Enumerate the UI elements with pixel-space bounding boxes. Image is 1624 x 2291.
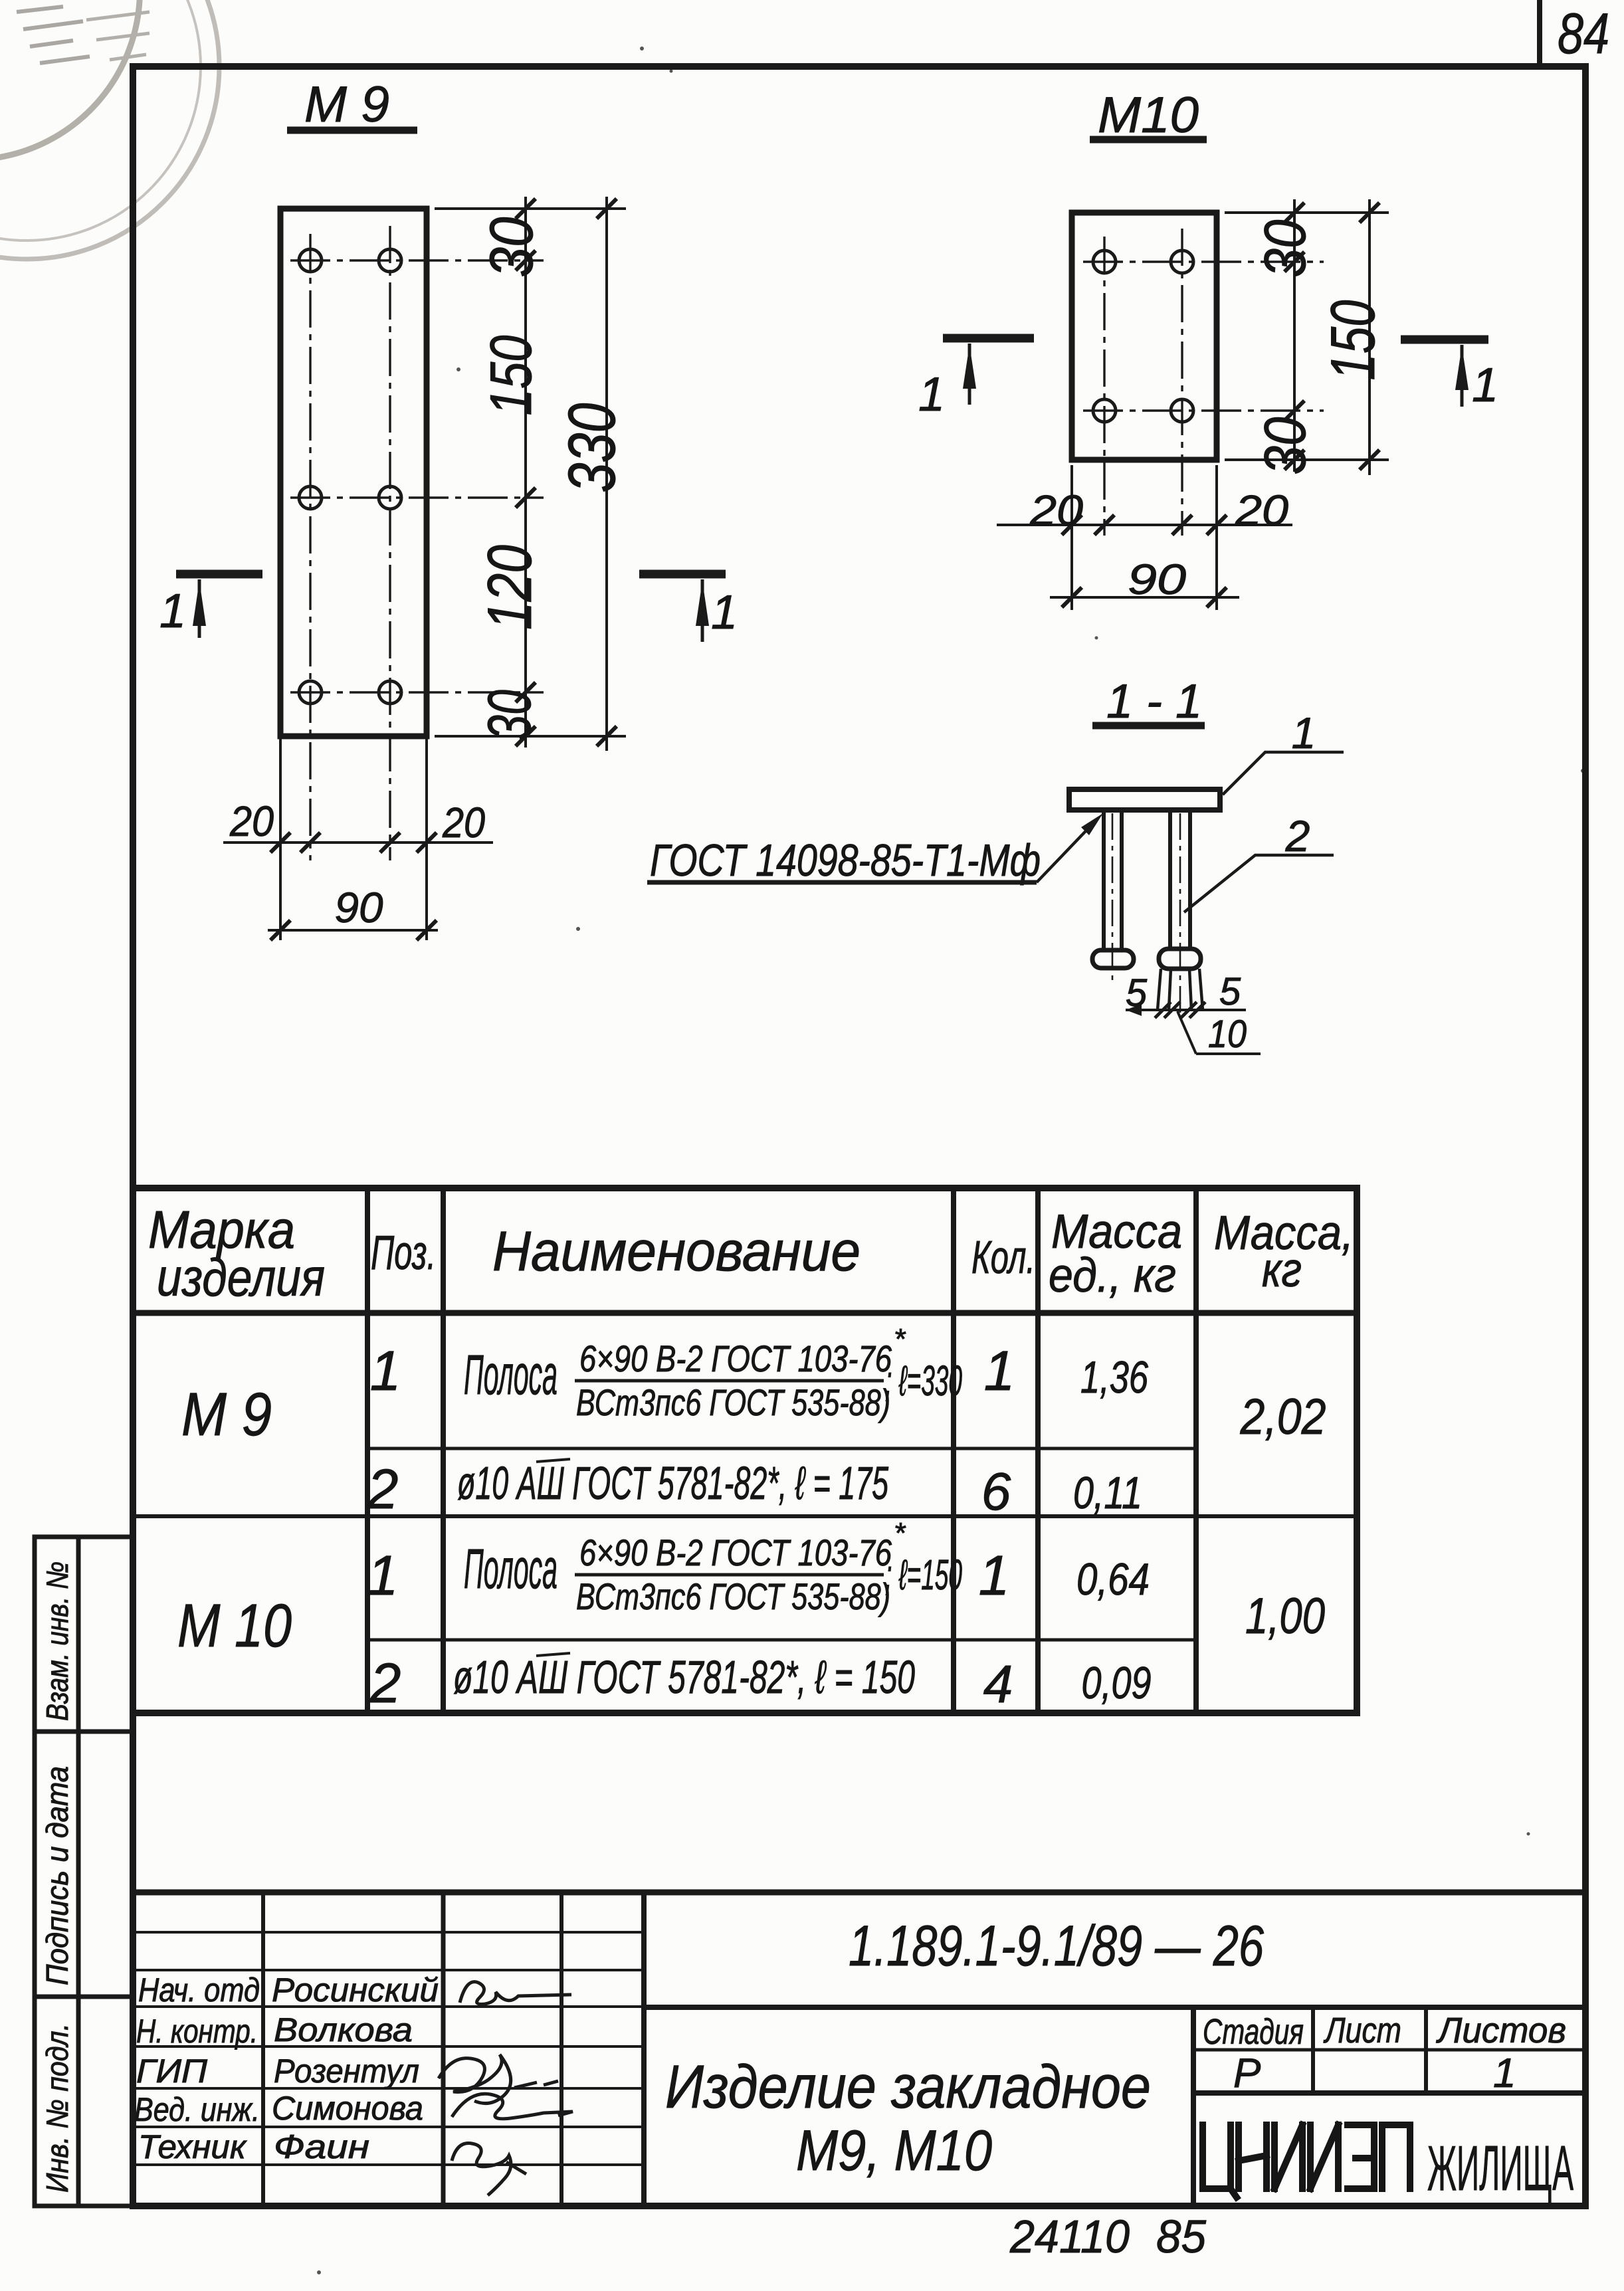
M10 bottom dim ticks <box>1062 515 1227 607</box>
svg-text:М10: М10 <box>1098 87 1199 144</box>
M10 holes d10 <box>1093 250 1193 422</box>
divider title/stadia <box>1191 2007 1196 2206</box>
stadia grid <box>1193 2007 1585 2093</box>
svg-text:Волкова: Волкова <box>274 2011 413 2048</box>
svg-text:; ℓ=150: ; ℓ=150 <box>885 1551 962 1599</box>
svg-text:Росинский: Росинский <box>272 1971 439 2009</box>
svg-text:20: 20 <box>1235 486 1289 534</box>
svg-text:330: 330 <box>555 403 629 493</box>
right rod centerline <box>1179 813 1181 1013</box>
svg-text:30: 30 <box>1252 417 1318 474</box>
scan stamp artifact top-left <box>0 0 219 259</box>
M9 extension lines right <box>435 209 626 736</box>
naim M10-2: rod d10 AIII <box>453 1651 915 1703</box>
left rod centerline <box>1112 813 1114 982</box>
M9 dimension line 20/20 <box>223 841 493 844</box>
M9 extension lines below plate <box>280 736 427 940</box>
svg-text:84: 84 <box>1558 2 1609 66</box>
svg-text:150: 150 <box>1318 300 1387 381</box>
svg-text:Симонова: Симонова <box>272 2090 423 2127</box>
svg-text:20: 20 <box>442 799 485 847</box>
svg-text:; ℓ=330: ; ℓ=330 <box>885 1357 962 1405</box>
part leader 1 <box>1223 708 1344 795</box>
svg-text:Подпись и дата: Подпись и дата <box>40 1766 74 1985</box>
svg-text:24110: 24110 <box>1009 2211 1130 2262</box>
M10 extension lines below plate <box>1072 465 1217 610</box>
svg-text:Листов: Листов <box>1436 2011 1566 2050</box>
svg-text:5: 5 <box>1219 970 1241 1013</box>
naim M9-1: Polosa fraction <box>464 1323 962 1423</box>
svg-text:30: 30 <box>478 217 546 278</box>
M9 section mark left <box>159 574 262 638</box>
svg-text:Кол.: Кол. <box>971 1231 1035 1283</box>
M10 section mark right <box>1401 340 1498 412</box>
svg-text:1: 1 <box>367 1544 399 1607</box>
svg-text:6: 6 <box>981 1462 1011 1521</box>
signature area texts <box>134 1971 439 2165</box>
svg-text:Полоса: Полоса <box>464 1538 558 1600</box>
signature Rozentul <box>439 2054 558 2104</box>
signature Rosinskiy <box>460 1982 571 2005</box>
left margin column boxes <box>35 1537 133 2206</box>
M9 bottom dim ticks <box>270 833 437 940</box>
svg-text:Поз.: Поз. <box>371 1227 436 1280</box>
dimension line 5/5 <box>1126 1009 1246 1011</box>
svg-text:0,09: 0,09 <box>1082 1658 1152 1708</box>
svg-text:Стадия: Стадия <box>1203 2012 1304 2052</box>
svg-text:150: 150 <box>478 335 544 415</box>
spec table row line M9/M10 <box>133 1514 1357 1518</box>
svg-text:1,00: 1,00 <box>1245 1588 1325 1644</box>
section 1-1 title <box>1092 675 1205 728</box>
doc number cell bottom line <box>644 2005 1585 2010</box>
svg-text:Нач. отд: Нач. отд <box>138 1971 260 2009</box>
svg-text:Р: Р <box>1233 2050 1261 2096</box>
svg-text:Лист: Лист <box>1324 2011 1401 2050</box>
signature Simonova <box>452 2094 573 2119</box>
svg-text:ГОСТ 14098-85-Т1-Мф: ГОСТ 14098-85-Т1-Мф <box>650 835 1041 886</box>
spec table row line M9-1/M9-2 <box>367 1447 1196 1450</box>
weld designation label GOST 14098-85-T1-Mf <box>647 813 1103 886</box>
svg-text:0,11: 0,11 <box>1073 1468 1142 1518</box>
section plate (pos.1) <box>1069 789 1220 810</box>
M10 section mark left <box>918 338 1034 421</box>
svg-text:6×90 В-2 ГОСТ 103-76: 6×90 В-2 ГОСТ 103-76 <box>579 1532 892 1573</box>
svg-text:2: 2 <box>367 1458 399 1520</box>
M9 vertical dimension line 30/150/120/30 <box>524 197 527 747</box>
spec table row line M10-1/M10-2 <box>367 1639 1196 1642</box>
left anchor rod (pos.2) <box>1104 810 1122 951</box>
svg-text:Розентул: Розентул <box>274 2052 419 2090</box>
svg-text:Инв. № подл.: Инв. № подл. <box>40 2023 74 2193</box>
svg-text:Полоса: Полоса <box>464 1344 558 1406</box>
title block vertical dividers (signature area) <box>263 1892 644 2206</box>
svg-text:ГИП: ГИП <box>136 2052 208 2090</box>
svg-text:90: 90 <box>335 884 383 932</box>
svg-text:1: 1 <box>1292 708 1316 757</box>
left anchor head washer <box>1092 950 1134 968</box>
svg-text:Н. контр.: Н. контр. <box>136 2013 258 2050</box>
M9 hole centerlines horizontal <box>290 260 544 692</box>
svg-text:ø10 АШ ГОСТ 5781-82*, ℓ = 150: ø10 АШ ГОСТ 5781-82*, ℓ = 150 <box>453 1651 915 1703</box>
svg-text:1: 1 <box>918 368 945 421</box>
svg-text:1: 1 <box>979 1544 1010 1607</box>
M9 vertical dimension line 330 <box>605 197 608 751</box>
svg-text:85: 85 <box>1156 2211 1207 2262</box>
M9 hole centerlines vertical <box>310 226 390 860</box>
svg-text:Вед. инж.: Вед. инж. <box>134 2091 260 2128</box>
M9 holes d10 <box>299 249 401 704</box>
M10 dimension ticks <box>1284 203 1379 470</box>
svg-text:4: 4 <box>983 1654 1013 1714</box>
right anchor rod (pos.2) <box>1170 810 1190 949</box>
svg-text:1.189.1-9.1/89 — 26: 1.189.1-9.1/89 — 26 <box>849 1914 1264 1978</box>
svg-text:1,36: 1,36 <box>1080 1352 1148 1403</box>
svg-text:1 - 1: 1 - 1 <box>1106 675 1202 728</box>
svg-text:90: 90 <box>1128 555 1187 603</box>
naim M10-1: Polosa fraction <box>464 1517 962 1617</box>
svg-text:ед., кг: ед., кг <box>1049 1249 1176 1302</box>
svg-text:ø10 АШ ГОСТ 5781-82*, ℓ = 175: ø10 АШ ГОСТ 5781-82*, ℓ = 175 <box>457 1457 889 1509</box>
page number cell divider <box>1537 0 1542 66</box>
M9 dimension line 90 <box>268 929 438 932</box>
svg-text:1: 1 <box>159 585 186 638</box>
M9 plate outline (pos.1 strip 6x90 l=330) <box>280 209 427 736</box>
svg-text:ВСт3пс6 ГОСТ 535-88): ВСт3пс6 ГОСТ 535-88) <box>576 1575 890 1617</box>
weld zone lines below right washer <box>1158 969 1203 1010</box>
svg-text:М 10: М 10 <box>177 1592 292 1660</box>
scan specks <box>317 47 1585 2274</box>
svg-text:Фаин: Фаин <box>274 2128 369 2165</box>
svg-text:*: * <box>894 1517 906 1549</box>
right anchor head washer <box>1159 949 1201 969</box>
svg-text:20: 20 <box>1029 486 1084 534</box>
svg-text:20: 20 <box>229 797 274 845</box>
M10 plate outline (pos.1 strip 6x90 l=150) <box>1072 213 1217 460</box>
svg-text:5: 5 <box>1126 971 1148 1015</box>
svg-text:Наименование: Наименование <box>492 1220 861 1282</box>
svg-text:ЖИЛИЩА: ЖИЛИЩА <box>1427 2133 1573 2204</box>
svg-text:Взам. инв. №: Взам. инв. № <box>40 1561 74 1721</box>
M10 hole centerlines horizontal <box>1083 262 1324 411</box>
svg-text:0,64: 0,64 <box>1076 1554 1150 1605</box>
svg-text:1: 1 <box>370 1340 401 1402</box>
svg-text:6×90 В-2 ГОСТ 103-76: 6×90 В-2 ГОСТ 103-76 <box>579 1338 892 1379</box>
svg-text:М 9: М 9 <box>304 76 389 133</box>
M10 view title <box>1090 87 1207 144</box>
svg-text:М9, М10: М9, М10 <box>796 2119 992 2183</box>
dim 10 leader and text <box>1177 1011 1261 1056</box>
svg-text:кг: кг <box>1262 1244 1302 1297</box>
M10 dimension line 90 <box>1050 596 1239 599</box>
M10 vertical dimension line 150 <box>1368 199 1371 475</box>
svg-text:2: 2 <box>369 1652 401 1714</box>
svg-text:120: 120 <box>474 545 544 630</box>
svg-text:1: 1 <box>1493 2050 1516 2096</box>
svg-text:Изделие закладное: Изделие закладное <box>665 2053 1151 2121</box>
title block top line <box>133 1890 1585 1896</box>
svg-text:Техник: Техник <box>138 2128 247 2165</box>
svg-text:2,02: 2,02 <box>1240 1389 1326 1445</box>
spec table header separator <box>133 1310 1357 1316</box>
svg-text:1: 1 <box>984 1340 1015 1402</box>
svg-text:2: 2 <box>1285 811 1310 860</box>
spec table outer frame <box>133 1188 1357 1713</box>
svg-text:М 9: М 9 <box>181 1381 272 1448</box>
logo ЦНИИЭП (stencil strokes) <box>1203 2125 1410 2197</box>
M9 section mark right <box>639 574 738 642</box>
M10 extension lines right <box>1225 213 1389 460</box>
svg-text:10: 10 <box>1208 1013 1247 1056</box>
part leader 2 <box>1184 811 1334 912</box>
spec table column lines <box>367 1188 1196 1713</box>
M10 dimension line 20/20 <box>997 524 1292 526</box>
M10 hole centerlines vertical <box>1104 229 1182 536</box>
svg-text:изделия: изделия <box>157 1248 325 1307</box>
M9 view title <box>287 76 417 133</box>
title block row lines <box>133 1932 644 2165</box>
svg-text:1: 1 <box>1472 359 1498 412</box>
M10 vertical dimension line 30/30 <box>1293 199 1296 472</box>
svg-text:*: * <box>894 1323 906 1355</box>
svg-text:ВСт3пс6 ГОСТ 535-88): ВСт3пс6 ГОСТ 535-88) <box>576 1381 890 1423</box>
naim M9-2: rod d10 AIII <box>457 1457 889 1509</box>
svg-text:30: 30 <box>1252 219 1318 277</box>
M9 dimension ticks <box>516 199 617 746</box>
signature Fain <box>452 2143 526 2195</box>
svg-text:1: 1 <box>711 586 738 639</box>
svg-text:30: 30 <box>476 690 544 740</box>
